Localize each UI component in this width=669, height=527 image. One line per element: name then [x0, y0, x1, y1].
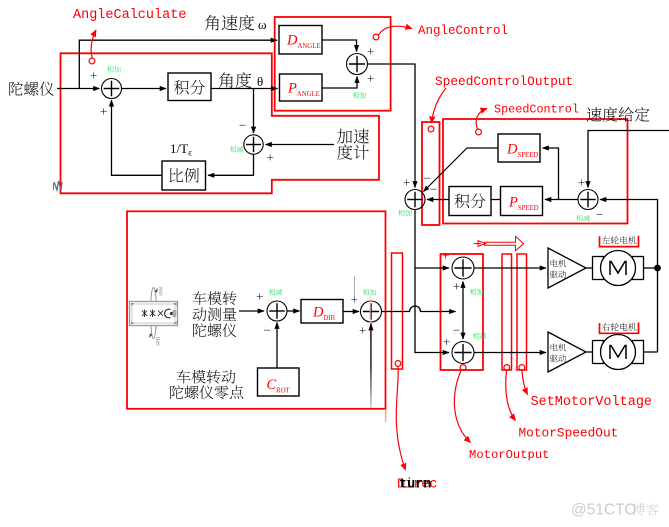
red box AngleControl region: [275, 17, 391, 111]
svg-text:−: −: [264, 323, 271, 338]
wire riser to angular-velocity line: [79, 40, 277, 88]
svg-text:turn: turn: [399, 478, 431, 493]
svg-text:+: +: [267, 150, 274, 165]
wire drive2 to motor2: [586, 351, 593, 353]
green label 相加 at S4: [398, 210, 411, 216]
block 比例 proportional: [162, 161, 206, 190]
direction wire with hop to riser: [382, 306, 456, 312]
svg-text:H0S: H0S: [154, 337, 159, 346]
wire speed setpoint input: [588, 131, 669, 188]
block P_SPEED: [501, 187, 543, 216]
wire integrator2 to S4: [427, 199, 449, 201]
svg-text:−: −: [453, 322, 460, 337]
wire S4 output down with branches to S6 S7: [415, 210, 449, 353]
wire D_ANGLE to S3: [322, 40, 357, 52]
red circle AngleCalculate: [89, 58, 95, 64]
red circle MotorSpeedOut: [504, 365, 510, 371]
summing junction Sd2: [361, 301, 382, 322]
red box SpeedControlOutput region: [422, 122, 440, 225]
wire D_SPEED diagonal to S4: [424, 148, 499, 192]
svg-text:+: +: [100, 104, 107, 119]
svg-text:ω: ω: [258, 17, 267, 32]
red leader AngleCalculate: [91, 30, 96, 58]
riser between S6 and S7: [462, 282, 464, 312]
wire S5 to P_SPEED with riser to D_SPEED: [545, 199, 578, 201]
block D_ANGLE: [279, 26, 322, 55]
red leader SpeedControlOutput: [432, 88, 447, 123]
label 角速度 omega: [205, 15, 255, 31]
faint pink artifact line through Sd2: [369, 296, 371, 341]
gyro chip icon body: [130, 302, 178, 326]
red circle SpeedControl: [476, 129, 482, 135]
red circle MotorOutput: [460, 365, 466, 371]
wire P_ANGLE to S3: [322, 77, 357, 89]
motor2: [593, 341, 604, 364]
wire angle branch down to S2: [253, 89, 255, 134]
red leader MotorOutput: [454, 371, 470, 443]
gyro chip icon ellipse arc: [151, 288, 157, 339]
green label 相加 at S1: [107, 66, 120, 72]
summing junction S1: [102, 79, 122, 99]
svg-text:+: +: [256, 289, 263, 304]
red box SpeedControl region: [443, 119, 628, 224]
red box SetMotorVoltage narrow region: [517, 254, 527, 370]
junction dot: [654, 265, 661, 272]
svg-text:−: −: [596, 207, 603, 222]
svg-text:+: +: [367, 44, 374, 59]
wire motor2 to feedback riser: [644, 351, 658, 353]
wire 比例 to S1 bottom: [112, 100, 163, 175]
green label 相减 at S7: [473, 333, 486, 339]
wire Sd1 to D_DIR: [287, 310, 300, 312]
block C_ROT: [258, 368, 300, 396]
wire gyro to S1: [57, 88, 100, 90]
wire S2 down to 比例: [208, 154, 254, 175]
svg-text:N0S: N0S: [157, 287, 162, 296]
label 加速度计 accelerometer: [337, 129, 369, 144]
wire S3 to S4: [368, 64, 416, 188]
green label 相加 at S6: [470, 289, 483, 295]
wire D_DIR to Sd2: [343, 311, 359, 313]
red hollow arrow: [485, 236, 524, 250]
red box AngleCalculate region: [61, 53, 380, 193]
artifact mark at box corner: [54, 181, 62, 190]
svg-text:+: +: [403, 175, 410, 190]
wire S6 to drive1: [474, 267, 546, 269]
motor1: [593, 257, 604, 280]
red leader AngleControl: [379, 26, 413, 35]
summing junction S6: [452, 257, 474, 279]
svg-text:+: +: [578, 175, 585, 190]
label 右轮电机: [600, 323, 639, 334]
block D_DIR: [301, 300, 343, 324]
red leader MotorSpeedOut: [506, 371, 516, 421]
svg-text:SetMotorVoltage: SetMotorVoltage: [531, 395, 653, 410]
svg-text:AngleControl: AngleControl: [418, 24, 508, 38]
wire drive1 to motor1: [586, 267, 593, 269]
motor drive triangle 1: [548, 248, 586, 288]
green label 相减 at S5: [576, 215, 589, 221]
wire S1 to integrator: [122, 88, 167, 90]
label 车模转动测量陀螺仪: [193, 291, 237, 305]
red box turn narrow region: [392, 253, 403, 369]
wire turn input fading into Sd2: [0, 0, 1, 1]
red circle SetMotorVoltage: [519, 365, 525, 371]
label 角度 theta: [219, 72, 252, 88]
red box MotorOutput region: [441, 254, 484, 370]
red box direction-control region: [127, 211, 386, 408]
faint lead above Sd2: [354, 276, 356, 296]
block D_SPEED: [498, 134, 540, 162]
wire integrator1 to P_ANGLE: [211, 88, 278, 90]
red circle AngleControl: [373, 34, 379, 40]
svg-text:+: +: [359, 323, 366, 338]
summing junction S5: [578, 190, 598, 210]
red circle turn: [395, 361, 401, 367]
red leader turn: [396, 367, 405, 471]
svg-text:MotorSpeedOut: MotorSpeedOut: [519, 426, 619, 441]
faint red tail below direction box: [385, 409, 387, 422]
svg-text:SpeedControlOutput: SpeedControlOutput: [435, 74, 573, 89]
red leader SetMotorVoltage: [522, 371, 528, 395]
label 陀螺仪 gyroscope input: [9, 82, 54, 96]
label 速度给定 speed setpoint: [587, 107, 650, 122]
block 积分 integrator2: [449, 187, 491, 216]
svg-text:+: +: [442, 248, 449, 263]
svg-text:−: −: [430, 182, 437, 197]
wire dir gyro to Sd1: [239, 310, 264, 312]
red box MotorSpeedOut narrow region: [502, 254, 512, 370]
wire motor1 to feedback riser: [644, 267, 658, 269]
motor drive triangle 2: [548, 332, 586, 372]
svg-text:−: −: [239, 118, 246, 133]
summing junction Sd1: [267, 301, 287, 321]
wire S7 to drive2: [474, 352, 546, 354]
svg-text:+: +: [443, 334, 450, 349]
svg-text:θ: θ: [257, 74, 263, 89]
wire C_ROT to Sd1: [276, 323, 278, 369]
wire P_SPEED to integrator2: [491, 199, 501, 201]
wire motor feedback to S5: [600, 200, 658, 353]
summing junction S4: [405, 190, 425, 210]
green label 相加 at S3: [353, 92, 366, 98]
svg-text:@51CTO: @51CTO: [571, 502, 636, 519]
summing junction S7: [452, 342, 474, 364]
block P_ANGLE: [280, 74, 323, 101]
svg-text:AngleCalculate: AngleCalculate: [73, 8, 186, 23]
label 左轮电机: [600, 236, 639, 247]
label 车模转动陀螺仪零点: [177, 370, 236, 384]
green label 相减 at S2: [230, 146, 243, 152]
svg-text:+: +: [367, 71, 374, 86]
wire accelerometer to S2: [266, 144, 335, 146]
svg-text:SpeedControl: SpeedControl: [494, 103, 579, 117]
svg-text:+: +: [453, 279, 460, 294]
red circle SpeedControlOutput: [428, 126, 434, 132]
red leader SpeedControl: [476, 109, 487, 130]
green label 相减 at Sd1: [269, 289, 282, 295]
block 积分 integrator1: [168, 73, 211, 101]
summing junction S2: [244, 135, 263, 154]
green label 相加 at Sd2: [363, 289, 376, 295]
summing junction S3: [347, 54, 368, 75]
svg-text:MotorOutput: MotorOutput: [469, 448, 549, 462]
svg-text:+: +: [90, 68, 97, 83]
